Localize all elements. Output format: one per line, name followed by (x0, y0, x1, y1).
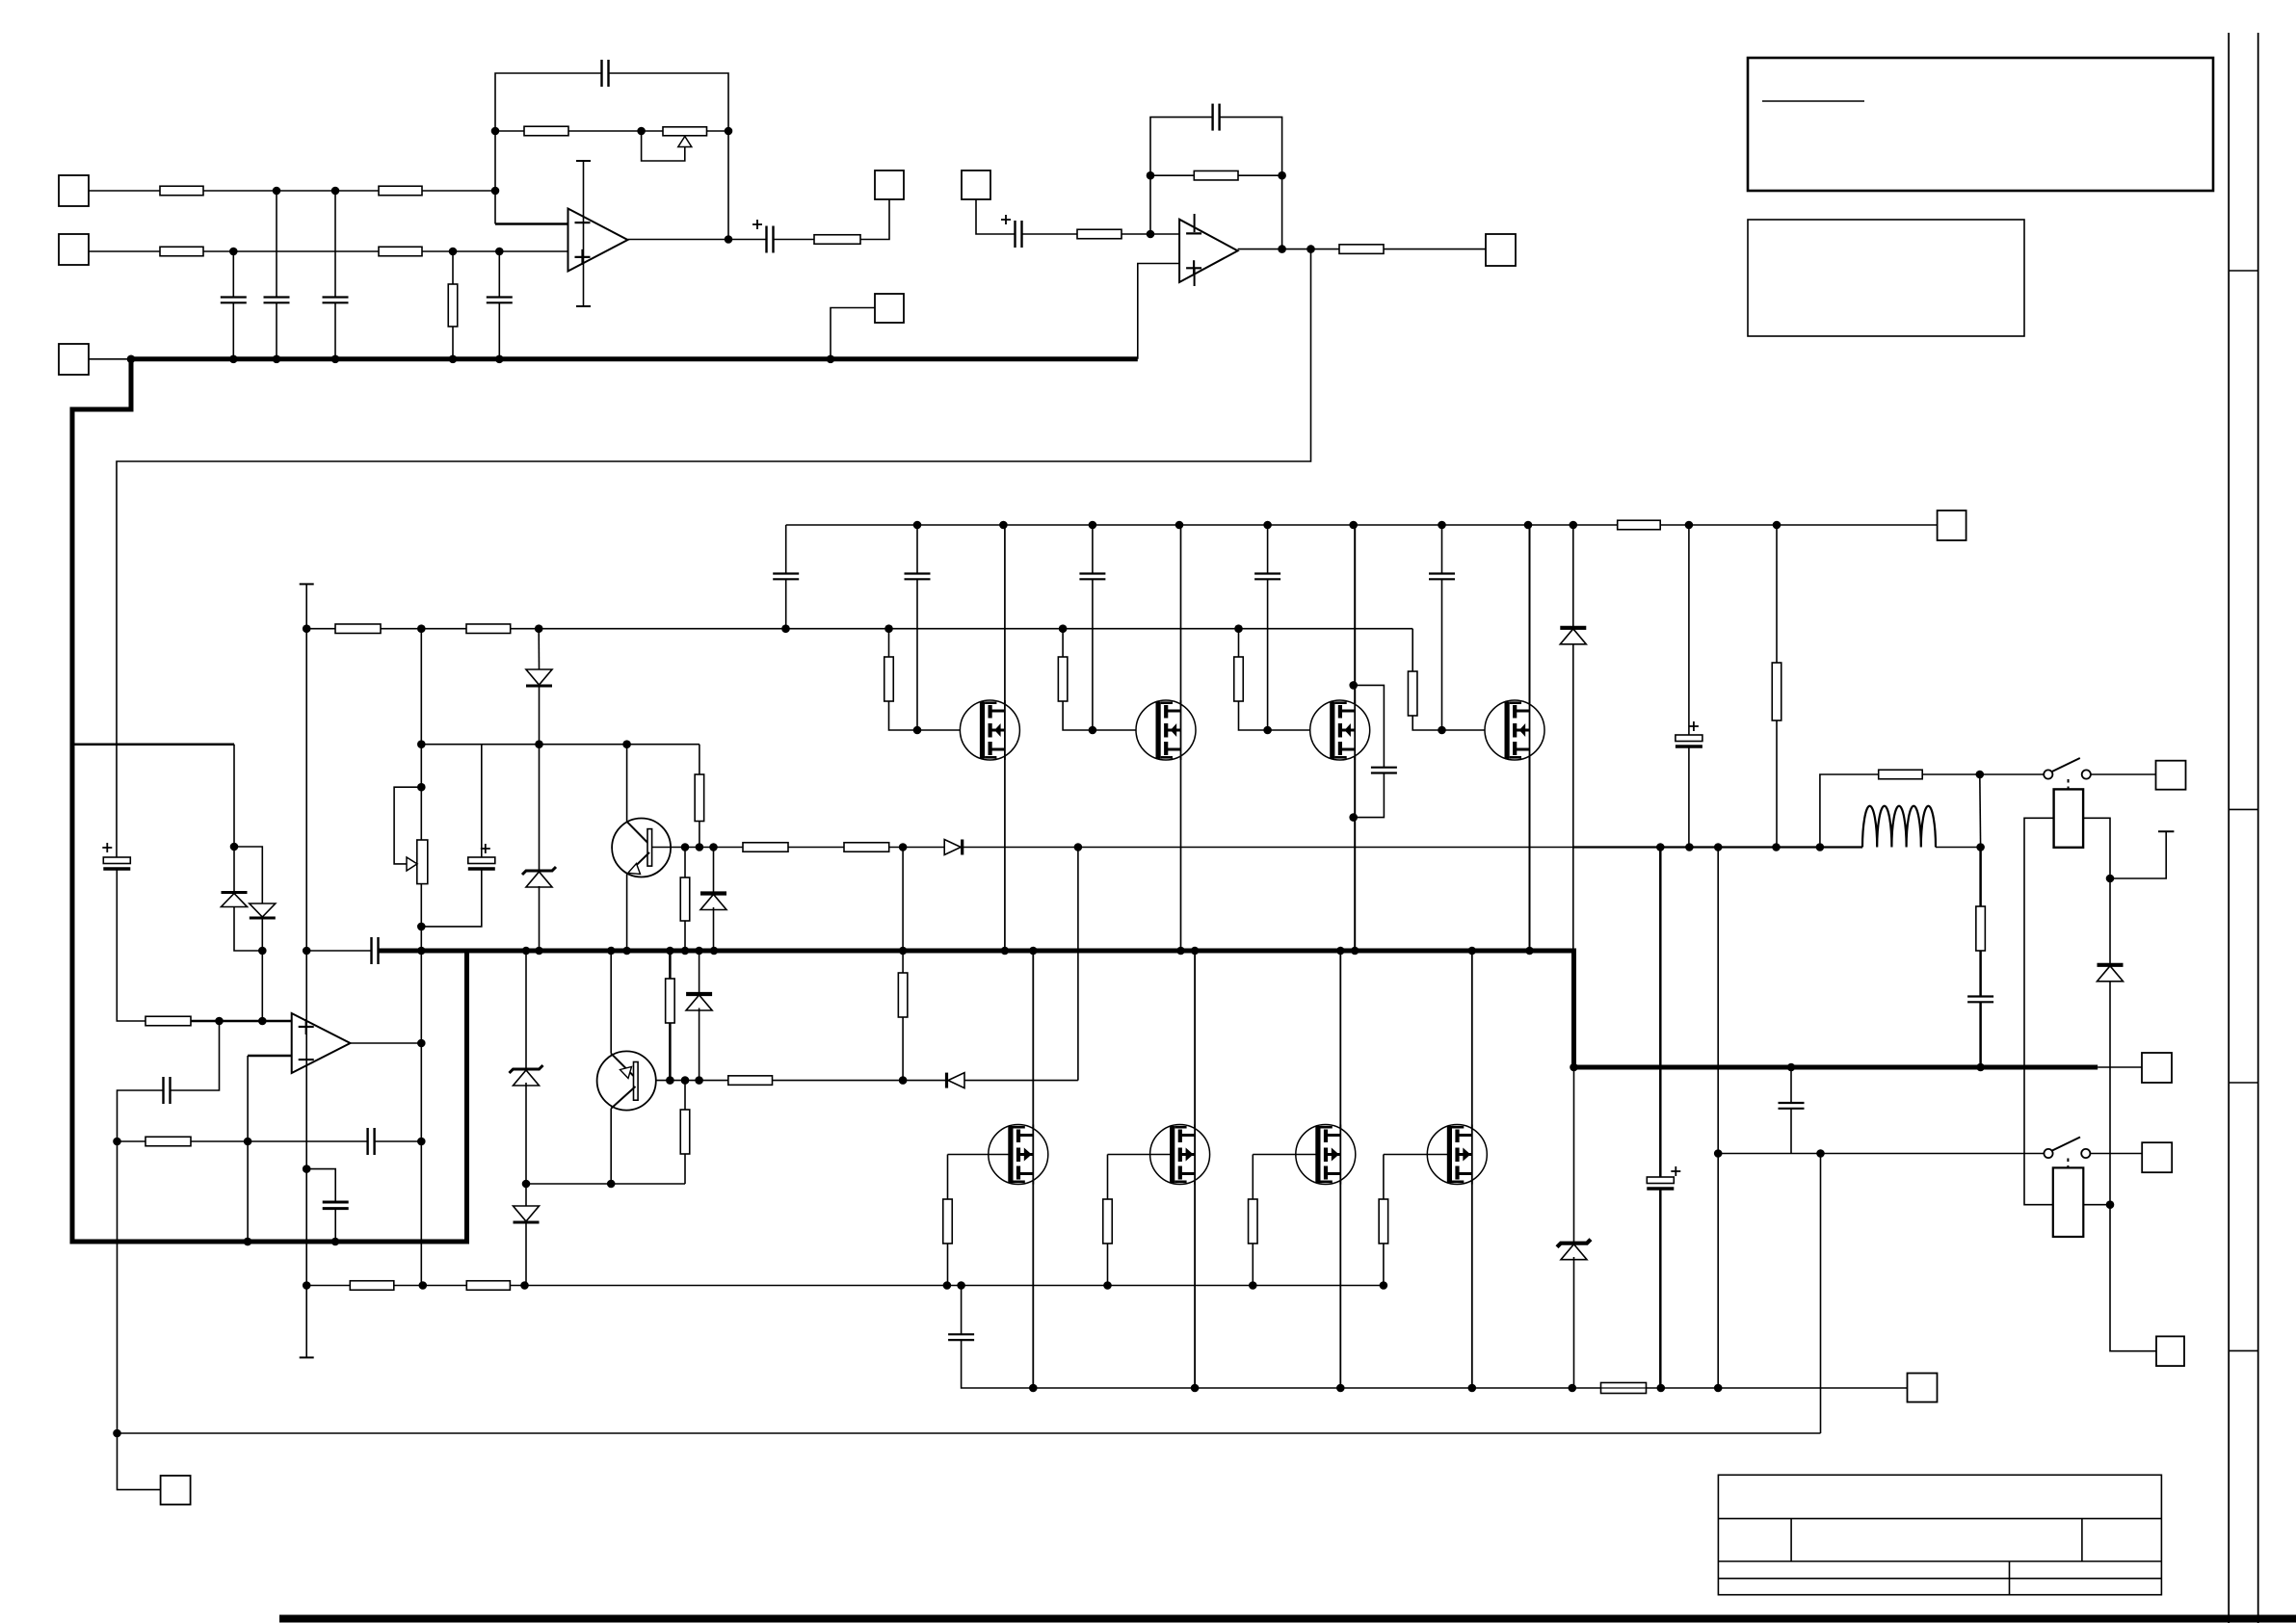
wire M1 drain-source column (1004, 525, 1006, 951)
junction bus-B zobel (1787, 1063, 1796, 1072)
wire RV2 wiper (394, 787, 421, 864)
wire D6 to lower rail (525, 1223, 527, 1286)
trimpot RV2 (407, 840, 428, 884)
wire C18 to gate node (1441, 579, 1443, 730)
resistor R17 (844, 843, 889, 852)
zener diode D4 (522, 867, 556, 887)
wire R12 to C11 (191, 1140, 368, 1142)
wire clamp right top (234, 847, 262, 903)
wire gate resistor R32 top lead (1383, 1155, 1385, 1200)
wire R7 to J4 (860, 199, 889, 240)
node output C tap (1656, 843, 1665, 851)
node U1 fb input (491, 187, 500, 196)
wire D9 top lead (699, 951, 700, 992)
wire M7 drain-source column (1339, 951, 1341, 1388)
wire C13 top lead (481, 745, 483, 857)
junction bus M4 source (1525, 947, 1534, 955)
wire J5 to C7 (976, 199, 1016, 234)
wire M2 drain-source column (1180, 525, 1182, 951)
mosfet M6 (1150, 1125, 1210, 1185)
junction ground column / zobel (303, 947, 311, 955)
node ground column cap tap (303, 1165, 311, 1173)
op-amp U2 power ticks (1194, 214, 1196, 286)
junction bus M8 drain (1468, 947, 1477, 955)
junction ground column lower rail (303, 1281, 311, 1290)
wire gate M7 (1253, 1154, 1318, 1156)
wire U3 -input (248, 1055, 292, 1058)
node R19 bottom (899, 1076, 908, 1085)
wire clamp left lead (233, 847, 235, 893)
capacitor C11 (368, 1128, 375, 1155)
wire R3 to U1 +input (203, 250, 568, 252)
resistor R7 (814, 235, 860, 245)
wire R27 to gate M4 (1412, 716, 1507, 730)
wire C4 top lead (498, 251, 500, 298)
wire lower driver row (638, 1080, 1078, 1082)
wire C17 to gate node (1267, 579, 1269, 730)
diode D1 (222, 893, 248, 907)
node driver/lower-driver link (1074, 843, 1083, 851)
node zobel L left (1816, 843, 1825, 851)
wire D11 to bus corner (1572, 643, 1574, 951)
junction C22 bottom (1657, 1384, 1666, 1393)
wire bias row right (421, 744, 699, 746)
wire relay supply stub (2110, 831, 2166, 878)
connector J3 box (59, 344, 89, 375)
junction ground bus (229, 355, 238, 364)
resistor R33 (350, 1281, 394, 1291)
transistor Q2 (597, 1051, 656, 1110)
wire to R12 (118, 1140, 146, 1142)
connector J13 box (2142, 1142, 2172, 1172)
resistor R3 (160, 247, 203, 256)
junction bus M7 drain (1336, 947, 1345, 955)
wire -input column (247, 1056, 249, 1242)
wire C1 top lead (232, 251, 234, 298)
wire J1 to R1 (89, 190, 160, 192)
node wiper tap (417, 783, 426, 792)
junction lower rail C21 (957, 1281, 965, 1290)
wire C13 bottom lead (421, 869, 482, 927)
capacitor C23 (1967, 997, 1993, 1003)
wire R6 to RV1 (568, 130, 663, 132)
wire C11 to bias column (375, 1140, 422, 1142)
node relay supply (2106, 875, 2115, 883)
wire relay coil right (2083, 818, 2110, 878)
wire gate M5 (948, 1154, 1011, 1156)
junction ground bus (449, 355, 458, 364)
wire J2 to R3 (89, 250, 160, 252)
node Q2 collector row left (522, 1180, 531, 1189)
wire bias column upper (420, 629, 422, 840)
node D9 bottom (695, 1076, 703, 1085)
capacitor C12 (372, 937, 379, 964)
capacitor C25 (323, 1202, 349, 1209)
junction lower rail D6 (520, 1281, 529, 1290)
resistor R19 (898, 973, 908, 1017)
wire feedback down column (1820, 1154, 1822, 1434)
mosfet M1 (960, 700, 1019, 760)
capacitor C14 (773, 574, 799, 580)
wire C6 to R7 (774, 239, 815, 241)
wire gate resistor R25 top lead (1062, 629, 1064, 657)
junction ground bus (331, 355, 340, 364)
op-amp U1 power rails (576, 161, 591, 306)
wire gate M8 (1384, 1154, 1449, 1156)
node output supply cap (1685, 843, 1694, 851)
junction lower rail R32 (1380, 1281, 1388, 1290)
resistor R15 (695, 774, 704, 822)
wire C1 bottom lead (232, 302, 234, 359)
wire C22 bottom lead (1659, 1189, 1662, 1389)
wire C4 bottom lead (498, 302, 500, 359)
wire D4 to output bus (539, 886, 541, 951)
node Q2 collector row (607, 1180, 616, 1189)
wire SW1 to SP+ (2091, 773, 2156, 775)
junction bus R20 (666, 947, 674, 955)
node bottom feedback row (113, 1429, 121, 1438)
wire R20 bottom lead (669, 1023, 672, 1081)
connector J5 box (962, 170, 990, 199)
wire lower rail (306, 1285, 1384, 1287)
wire R18 top lead (684, 848, 686, 878)
resistor R24 (884, 657, 894, 701)
wire C16 to gate node (1092, 579, 1094, 730)
wire R21 bottom lead (684, 1154, 686, 1184)
resistor R34 (466, 1281, 510, 1291)
capacitor C18 (1429, 574, 1455, 580)
trimpot RV1 (663, 127, 707, 147)
wire C2 top lead (276, 191, 277, 298)
resistor R5 (448, 284, 458, 327)
node bottom feedback (1816, 1149, 1825, 1158)
wire gate resistor R27 top lead (1412, 629, 1413, 671)
junction row M7 source (1336, 1384, 1345, 1393)
resistor R36 (1976, 906, 1986, 951)
resistor R9 (1194, 170, 1238, 180)
wire C21 top lead (961, 1286, 963, 1335)
junction V+ rail (999, 521, 1008, 530)
wire C24 bottom lead (1790, 1109, 1792, 1154)
wire R5 top lead (452, 251, 454, 284)
wire C2 bottom lead (276, 302, 277, 359)
connector J12 box (2156, 761, 2186, 790)
junction bus M5 drain (1029, 947, 1038, 955)
junction lower rail R29 (943, 1281, 952, 1290)
junction output bus D5 (522, 947, 531, 955)
node L1 right (1976, 843, 1985, 851)
node diode column (535, 740, 543, 748)
junction V+ rail (1349, 521, 1358, 530)
wire L1 to node (1936, 847, 1981, 849)
ground bus thick path (72, 359, 1138, 1242)
resistor R35 (1879, 770, 1923, 779)
capacitor C4 (487, 298, 513, 303)
wire D12 bottom lead (1573, 1257, 1575, 1388)
wire relay coil left (2024, 818, 2054, 1204)
wire C14 to gate row (785, 579, 787, 628)
node U2 fb R left (1147, 171, 1155, 180)
junction V+ rail (1089, 521, 1097, 530)
junction D12 bottom (1569, 1384, 1577, 1393)
fuse F1 (1601, 1383, 1647, 1394)
wire M8 drain-source column (1471, 951, 1473, 1388)
wire upper gate row (306, 628, 1412, 630)
diode D2 (250, 903, 276, 918)
junction gate row (1059, 624, 1068, 633)
wire U1 -input (495, 223, 568, 225)
resistor R28 (1772, 663, 1781, 720)
wire R10 to J6 (1384, 249, 1486, 250)
wire C7 to R8 (1023, 233, 1078, 235)
junction bus D9 (695, 947, 703, 955)
wire R9 to fb right (1238, 174, 1282, 176)
resistor R23 (1618, 520, 1661, 530)
wire Q2 collector (610, 1109, 612, 1184)
diode D11 (1560, 628, 1586, 644)
node RV1 wiper return (637, 127, 646, 136)
title block (1718, 1475, 2161, 1594)
connector J4 box (875, 170, 904, 199)
node U2 fb R right (1278, 171, 1286, 180)
wire C10 to fb resistor row (118, 1090, 164, 1141)
node gate row A (417, 624, 426, 633)
wire driver row (652, 847, 1574, 849)
wire D13 to relay 2 (2083, 981, 2110, 1205)
wire C16 top lead (1092, 525, 1094, 574)
junction row M8 source (1468, 1384, 1477, 1393)
resistor R20 (666, 979, 675, 1023)
wire gate resistor R30 top lead (1107, 1155, 1109, 1200)
wire to J14 (2110, 1205, 2156, 1351)
capacitor C9 (polarized) (102, 843, 130, 869)
wire M5 drain-source column (1032, 951, 1034, 1388)
wire R24 to gate M1 (889, 701, 983, 730)
node row2-C1 (229, 248, 238, 256)
wire R36 to C23 (1979, 951, 1982, 997)
wire R15 to driver row (699, 822, 700, 848)
wire D3 to bias row (539, 687, 541, 745)
junction lower rail R30 (1103, 1281, 1112, 1290)
connector J1 box (59, 175, 89, 206)
wire sense row (1718, 1153, 2048, 1155)
capacitor C19 (1371, 768, 1397, 773)
connector J2 box (59, 234, 89, 265)
wire U2 out to main +input (117, 249, 1311, 857)
mosfet M2 (1136, 700, 1196, 760)
capacitor C5 (602, 60, 609, 87)
junction return row (244, 1238, 252, 1246)
wire U2 fb left/top (1150, 118, 1213, 234)
node clamp bottom (258, 947, 267, 955)
node U2 out fb (1278, 245, 1286, 253)
node U2 out tap (1306, 245, 1315, 253)
resistor R8 (1077, 229, 1122, 239)
wire C24 top lead (1790, 1067, 1792, 1103)
resistor R25 (1058, 657, 1068, 701)
op-amp U3 (292, 1013, 351, 1073)
wire R35 to switch (1922, 773, 2048, 775)
relay contact SW1 (2044, 758, 2091, 794)
junction ground bus (273, 355, 281, 364)
mosfet M5 (989, 1125, 1048, 1185)
wire bottom feedback row (118, 1432, 1821, 1434)
capacitor C21 (948, 1334, 974, 1340)
node D7 top (709, 843, 718, 851)
node R15 bottom (696, 843, 704, 851)
wire C3 bottom lead (334, 302, 336, 359)
capacitor C10 (164, 1077, 171, 1104)
zener diode D12 (1557, 1240, 1591, 1260)
wire D12 top lead (1573, 1067, 1575, 1243)
wire zobel to ground column (306, 950, 371, 952)
node -input to return row (244, 1238, 252, 1246)
capacitor C22 (polarized) (1647, 1166, 1680, 1189)
wire Q1 collector (626, 745, 628, 822)
wire D5 top lead (525, 951, 527, 1069)
junction output bus bias (417, 947, 426, 955)
wire D7 to bus (713, 907, 715, 951)
node output rail (1772, 843, 1781, 851)
resistor R30 (1103, 1199, 1113, 1243)
wire D3 top lead (538, 629, 540, 669)
junction row M6 source (1191, 1384, 1200, 1393)
junction V+ rail (1685, 521, 1694, 530)
node gate row C (781, 624, 790, 633)
wire R36 top lead (1979, 848, 1982, 907)
wire D7 top lead (713, 848, 715, 893)
node gate M4 (1438, 726, 1446, 735)
wire J7 to ground bus (831, 308, 875, 359)
junction bus Q2 emitter (607, 947, 616, 955)
junction bus Q1 emitter (622, 947, 631, 955)
mosfet M8 (1427, 1125, 1487, 1185)
junction V+ rail (1773, 521, 1781, 530)
node U1 out fb (725, 235, 733, 244)
resistor R29 (943, 1199, 953, 1243)
wire RV1 wiper loop (642, 131, 685, 161)
wire R28 to output row (1776, 720, 1778, 848)
wire R29 to lower rail (947, 1243, 949, 1286)
resistor R18 (680, 877, 690, 921)
connector J10 box (2142, 1053, 2172, 1083)
output bus thick path (379, 951, 2098, 1067)
capacitor C1 (221, 298, 247, 303)
junction bus M3 source (1351, 947, 1359, 955)
wire output row to inductor (1574, 846, 1863, 848)
wire damping R left leg (1820, 774, 1879, 848)
sheet border bottom (279, 1615, 2296, 1623)
node gate row B (535, 624, 543, 633)
node row1-C3 (331, 187, 340, 196)
junction V+ rail (1570, 521, 1578, 530)
wire bias column lower (420, 884, 422, 1286)
wire gate resistor R24 top lead (888, 629, 890, 657)
wire driver link column (1077, 848, 1079, 1081)
junction bus M1 source (1001, 947, 1010, 955)
node fb row (244, 1138, 252, 1146)
wire R18 to bus (684, 921, 686, 951)
junction bus R18 (681, 947, 690, 955)
power terminal T1 (2158, 830, 2174, 832)
inductor L1 (1862, 806, 1936, 848)
node Q1 collector (622, 740, 631, 748)
capacitor C20 (polarized) (1676, 721, 1702, 746)
wire C20 to output row (1688, 746, 1690, 848)
node bias/driver tap (899, 843, 908, 851)
wire D13 top lead (2109, 878, 2111, 963)
resistor R22 (728, 1076, 773, 1086)
wire U2 fb top/right (1220, 118, 1282, 249)
wire R8 to U2 -input (1122, 233, 1179, 235)
wire C25 to return row (334, 1209, 336, 1242)
diode D9 (686, 994, 712, 1010)
wire R28 top lead (1776, 525, 1778, 663)
note box 2 (1748, 220, 2024, 336)
wire to J8 (118, 1141, 161, 1490)
diode D8 (944, 840, 963, 855)
capacitor C24 (1779, 1103, 1805, 1109)
junction lower rail R31 (1249, 1281, 1257, 1290)
mosfet M4 (1485, 700, 1544, 760)
capacitor C7 (polarized) (1016, 221, 1022, 248)
wire C20 top lead (1688, 525, 1690, 735)
junction bus M2 source (1176, 947, 1185, 955)
diode D3 (526, 669, 552, 686)
wire R19 to lower driver row (902, 1017, 904, 1081)
wire SW2 to J13 (2090, 1153, 2142, 1155)
capacitor C8 (1213, 104, 1220, 131)
node R18 top (681, 843, 690, 851)
wire bias row corner to R15 (699, 745, 700, 774)
capacitor C16 (1079, 574, 1105, 580)
junction V+ rail (1438, 521, 1446, 530)
junction output bus D4 (535, 947, 543, 955)
node sense row left (1714, 1149, 1723, 1158)
wire R5 bottom lead (452, 327, 454, 359)
wire C18 top lead (1441, 525, 1443, 574)
wire lower source row (962, 1340, 1908, 1388)
junction gate row (1234, 624, 1243, 633)
wire clamp left top (233, 745, 235, 847)
resistor R1 (160, 186, 203, 196)
capacitor C3 (323, 298, 349, 303)
junction V+ rail (1524, 521, 1533, 530)
connector J6 box (1486, 234, 1516, 266)
resistor R13 (335, 624, 381, 634)
resistor R6 (524, 126, 568, 136)
wire C23 to bus-B (1979, 1002, 1982, 1067)
node relay2 right (2106, 1200, 2115, 1209)
node RV2/C13 bottom (417, 923, 426, 931)
note box 1 (1748, 58, 2213, 191)
junction return row C (331, 1238, 340, 1246)
resistor R11 (145, 1016, 191, 1026)
wire C14 top lead (785, 525, 787, 574)
node output feedback tap (1714, 843, 1723, 851)
resistor R10 (1339, 245, 1384, 254)
junction row M5 source (1029, 1384, 1038, 1393)
zener diode D5 (510, 1065, 543, 1086)
transistor Q1 (612, 819, 671, 877)
wire output feedback column (1717, 848, 1719, 1389)
mosfet M3 (1310, 700, 1370, 760)
flyback diode D13 (2098, 965, 2124, 982)
op-amp U3 power column (300, 584, 314, 1357)
junction gate row (884, 624, 893, 633)
node M3 snubber top (1349, 681, 1358, 690)
wire R1 to U1 feedback node (203, 190, 495, 192)
